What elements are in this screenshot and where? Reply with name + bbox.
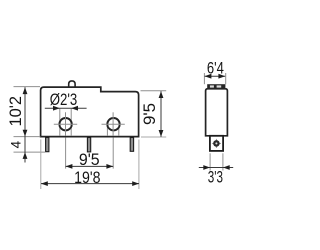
- svg-text:3'3: 3'3: [208, 169, 223, 187]
- dimension line Ø2'3: [45, 107, 87, 109]
- crosshair right hole vertical / 9'5 extension: [112, 112, 114, 135]
- terminal pin 1: [46, 138, 49, 152]
- terminal block hole center window: [215, 142, 217, 144]
- svg-text:9'5: 9'5: [141, 103, 159, 125]
- side view plunger strip: [207, 84, 225, 89]
- svg-text:19'8: 19'8: [74, 169, 100, 187]
- mounting hole right: [107, 118, 119, 130]
- svg-text:6'4: 6'4: [207, 59, 224, 77]
- terminal pin 2: [87, 138, 90, 152]
- switch body outline (side view): [206, 89, 228, 136]
- side view terminal block: [210, 136, 223, 151]
- svg-text:9'5: 9'5: [79, 151, 100, 169]
- mounting hole left: [59, 118, 71, 130]
- svg-text:Ø2'3: Ø2'3: [50, 91, 78, 109]
- plunger strip window left: [210, 85, 214, 87]
- switch body outline (front view): [41, 87, 139, 137]
- extension line body bottom-left: [14, 136, 41, 138]
- extension line right-side 9'5 bottom: [141, 136, 166, 138]
- crosshair left hole vertical / 9'5 extension: [65, 112, 67, 135]
- hole channel line left-hole right edge: [70, 109, 72, 136]
- terminal block crosshair: [212, 142, 221, 144]
- extension line body top-left: [14, 86, 41, 88]
- hole channel line right-hole right edge: [118, 124, 120, 136]
- svg-text:10'2: 10'2: [7, 96, 25, 127]
- dimension line 19'8: [41, 183, 139, 185]
- svg-text:4: 4: [9, 140, 24, 148]
- side view: extension line 6'4 left: [203, 73, 205, 84]
- dimension line 9'5 (right vertical): [160, 91, 162, 137]
- extension line right-side 9'5 top: [141, 90, 167, 92]
- plunger bump on top of switch body: [69, 81, 75, 87]
- terminal pin 3: [130, 138, 133, 152]
- crosshair right hole horizontal: [102, 123, 125, 125]
- extension line 19'8 left: [40, 140, 42, 190]
- extension line 3'3 left: [209, 153, 211, 170]
- side view: extension line 6'4 right: [225, 73, 227, 84]
- extension line 3'3 right: [222, 153, 224, 170]
- dimension line 9'5 (bottom horizontal): [66, 165, 114, 167]
- extension line pin bottom-left: [14, 151, 46, 153]
- dimension line 3'3: [199, 167, 233, 169]
- crosshair left hole horizontal: [54, 123, 77, 125]
- dimension line 10'2 and 4 (left vertical): [24, 87, 26, 162]
- hole channel line right-hole left edge: [106, 124, 108, 136]
- dimension line 6'4: [205, 75, 226, 77]
- hole channel line left-hole left edge: [59, 109, 61, 136]
- terminal block hole: [213, 140, 220, 147]
- plunger strip window right: [217, 85, 222, 87]
- extension line 19'8 right: [138, 140, 140, 190]
